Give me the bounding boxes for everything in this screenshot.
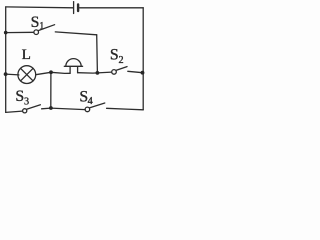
bell right leg — [77, 67, 79, 73]
svg-text:L: L — [22, 46, 31, 63]
switch S4 pivot — [85, 107, 90, 112]
svg-text:4: 4 — [88, 96, 93, 107]
wire S2-to-right — [128, 71, 143, 72]
bell base line — [64, 65, 82, 67]
wire S3-to-S4 — [42, 108, 86, 110]
battery B1 short thick plate — [77, 4, 79, 11]
wire S4-to-right-corner — [107, 108, 144, 110]
svg-text:S: S — [110, 46, 119, 63]
switch S1 lever — [38, 25, 54, 31]
wire bell-right-leg-to-nodeB-S2 — [78, 72, 112, 73]
lamp L cross diagonal 2 — [21, 68, 34, 81]
svg-text:S: S — [15, 88, 24, 105]
switch S3 lever — [27, 105, 41, 110]
node E junction dot — [141, 71, 145, 75]
svg-text:1: 1 — [39, 21, 44, 32]
wire middle left — [6, 73, 19, 76]
wire left vertical — [5, 7, 7, 113]
node C junction dot — [4, 72, 8, 76]
wire right vertical — [142, 8, 144, 110]
wire nodeD-to-bell-left-leg — [51, 72, 70, 73]
wire vertical nodeD-to-nodeF — [50, 72, 52, 108]
wire top-right segment — [80, 7, 144, 9]
node D junction dot — [49, 70, 53, 74]
background — [0, 0, 149, 119]
wire vertical S1-to-middle — [96, 35, 99, 73]
wire S1 row right — [55, 32, 96, 35]
lamp L cross diagonal 1 — [21, 68, 34, 81]
lamp L circle — [18, 66, 36, 84]
svg-text:2: 2 — [119, 55, 124, 66]
wire S1 row left — [6, 31, 34, 33]
wire bottom left segment — [6, 111, 23, 112]
wire lamp-to-nodeD — [36, 72, 51, 74]
switch S2 lever — [116, 67, 127, 71]
bell left leg — [69, 67, 71, 73]
battery B1 long plate — [73, 2, 75, 14]
node F junction dot — [49, 106, 53, 110]
svg-text:S: S — [31, 14, 40, 31]
svg-text:3: 3 — [24, 96, 29, 107]
switch S4 lever — [89, 103, 104, 108]
switch S2 pivot — [112, 70, 117, 75]
wire top-left segment — [6, 6, 73, 9]
switch S3 pivot — [23, 109, 27, 113]
switch S1 pivot — [34, 30, 39, 35]
bell dome arc — [66, 59, 81, 67]
node B junction dot — [96, 71, 100, 75]
node A junction dot — [4, 31, 8, 35]
